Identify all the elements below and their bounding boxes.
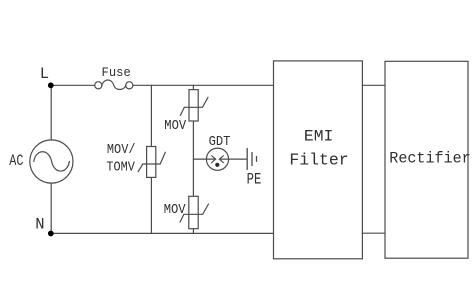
node L junction dot [48,82,54,88]
wire bottom rail (N to EMI filter) [51,232,274,234]
GDT V1 gas dot [215,163,219,167]
AC source G1 [30,140,73,183]
svg-text:L: L [40,65,49,83]
rectifier block U2 [385,61,468,258]
wire branch2 stub (top rail to MOV2) [192,85,194,89]
varistor RV3 MOV body [189,196,198,228]
varistor RV3 stroke [180,204,209,222]
svg-text:Filter: Filter [289,151,348,170]
wire top rail left segment (L to fuse) [51,84,95,86]
wire EMI to rectifier bottom [362,232,385,234]
svg-text:MOV/: MOV/ [107,142,136,158]
varistor RV2 stroke [180,97,208,115]
fuse F1 [95,80,133,90]
wire branch2 middle (MOV2 to MOV3) [192,121,194,196]
svg-text:PE: PE [247,171,262,189]
wire GDT branch left (branch2 to GDT) [193,158,206,160]
node N junction dot [48,231,54,237]
svg-text:N: N [35,215,44,233]
svg-text:MOV: MOV [164,118,186,134]
varistor RV1 MOV/TOMV body [147,147,156,178]
wire GDT to PE [229,158,247,160]
svg-text:GDT: GDT [209,134,231,150]
wire top rail right segment (fuse to EMI filter) [133,84,274,86]
varistor RV1 stroke [138,152,165,171]
GDT V1 right electrode arrow [219,156,228,163]
earth PE symbol [247,149,256,170]
EMI filter block U1 [274,61,363,259]
wire branch1 upper (top rail to MOV/TOMV) [150,85,152,146]
svg-text:MOV: MOV [164,202,186,218]
svg-text:Rectifier: Rectifier [389,150,470,168]
GDT V1 left electrode arrow [206,156,215,163]
wire branch1 lower (MOV/TOMV to bottom rail) [150,177,152,233]
varistor RV2 MOV body [189,90,198,121]
GDT V1 body [206,148,228,170]
wire branch2 bottom stub (MOV3 to bottom rail) [192,229,194,234]
wire left vertical lower (AC source to N) [50,183,52,233]
wire left vertical upper (L to AC source) [50,85,52,140]
svg-text:EMI: EMI [304,128,333,146]
wire EMI to rectifier top [362,84,385,86]
svg-text:Fuse: Fuse [102,66,131,80]
svg-text:AC: AC [9,152,23,170]
svg-text:TOMV: TOMV [106,160,135,176]
